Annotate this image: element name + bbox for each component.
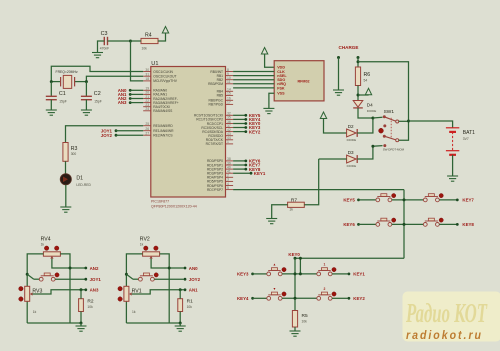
module U2 RFM02 body <box>274 61 324 101</box>
wire CHARGE rail to SW1 top <box>358 62 409 121</box>
svg-text:AN2: AN2 <box>90 266 99 271</box>
svg-text:4: 4 <box>227 182 229 186</box>
button 2 row right <box>317 287 336 300</box>
wire keypad rail to KEY0 <box>295 257 404 259</box>
svg-text:RB4: RB4 <box>217 90 224 94</box>
svg-text:KEY4: KEY4 <box>237 296 249 301</box>
svg-text:RV4: RV4 <box>41 237 51 243</box>
node label KEY0 at U1 <box>233 121 261 126</box>
button &#9660; row left <box>267 287 286 300</box>
svg-text:9: 9 <box>227 72 229 76</box>
wire D3 left to R7 riser <box>319 158 347 160</box>
svg-text:R6: R6 <box>364 72 371 78</box>
wire bottom rail R2 <box>27 322 81 324</box>
wire RV4 right lead and right rail <box>60 254 70 323</box>
node junction button branch <box>125 273 128 276</box>
node label JOY2 <box>184 277 201 282</box>
svg-text:R1: R1 <box>187 299 193 305</box>
node label KEY6 <box>343 222 376 227</box>
svg-text:40: 40 <box>227 165 231 169</box>
wire D2 D4 node to SW1 pin <box>373 116 383 119</box>
wire SW1 pole1 contact to battery rail <box>399 120 409 122</box>
node label KEY8 at U1 <box>233 167 261 172</box>
wire RV2 right lead and right rail <box>160 254 170 323</box>
svg-text:23: 23 <box>145 103 149 107</box>
svg-text:AN3: AN3 <box>90 288 99 293</box>
ground below D1 <box>60 207 71 212</box>
svg-text:KEY2: KEY2 <box>249 129 261 134</box>
svg-text:39: 39 <box>227 161 231 165</box>
node junction R6 D4 arrow <box>357 94 360 97</box>
svg-text:RC2/CCP1: RC2/CCP1 <box>207 122 223 126</box>
svg-text:RA1/AN1: RA1/AN1 <box>153 93 167 97</box>
diode D2 <box>347 124 358 142</box>
svg-text:15: 15 <box>227 92 231 96</box>
svg-text:RB7/PGD: RB7/PGD <box>209 103 224 107</box>
svg-text:RE1/AN6/WR: RE1/AN6/WR <box>153 129 174 133</box>
wire OSC1 to crystal left node <box>51 66 143 81</box>
node label JOY1 <box>101 128 143 133</box>
wire D2 to SW1 common <box>357 118 373 133</box>
svg-text:OSC2/CLKOUT: OSC2/CLKOUT <box>153 75 176 79</box>
button KEY8 row right <box>423 218 443 226</box>
wire button to KEY7 <box>439 199 456 201</box>
wire OSC2 to crystal right node <box>86 76 143 81</box>
svg-text:17: 17 <box>227 101 231 105</box>
ground below R1 <box>175 323 186 331</box>
watermark radiokot panel <box>403 292 500 342</box>
svg-text:nSEL: nSEL <box>277 74 287 78</box>
wire diagonal to button <box>126 274 138 279</box>
node junction R2 top <box>80 288 83 291</box>
svg-text:1: 1 <box>324 263 326 267</box>
svg-text:32: 32 <box>227 112 231 116</box>
wire R7 right riser to D3 <box>304 159 318 205</box>
watermark title <box>405 298 488 328</box>
node label KEY7 <box>456 198 475 203</box>
svg-text:10k: 10k <box>187 305 193 309</box>
wire button to rail row KEY6 <box>392 223 424 225</box>
svg-text:D2: D2 <box>348 124 354 129</box>
wire R7 left to ground <box>272 205 288 219</box>
node label AN1 <box>118 92 143 97</box>
node label JOY2 <box>101 133 143 138</box>
wire RV3 wiper to AN3 <box>33 290 85 294</box>
svg-text:R4: R4 <box>145 32 152 38</box>
svg-text:RA5/AN4/SS: RA5/AN4/SS <box>153 109 173 113</box>
U1 right pin stubs and numbers <box>226 68 234 190</box>
svg-text:KEY8: KEY8 <box>462 222 474 227</box>
wire D3 to SW1 second pole <box>357 146 382 159</box>
wire to power arrow at D4 <box>358 94 369 96</box>
ground below RFM02 VSS <box>263 108 274 113</box>
diode D1 LED-RED <box>60 174 91 187</box>
svg-text:15pF: 15pF <box>94 100 102 104</box>
svg-text:19: 19 <box>145 87 149 91</box>
svg-text:RB6/PGC: RB6/PGC <box>209 99 224 103</box>
svg-text:C1: C1 <box>59 91 66 97</box>
node junction riser top <box>299 257 302 260</box>
svg-text:R5: R5 <box>302 313 308 319</box>
node junction right rail AN0 row <box>168 267 171 270</box>
wire button to KEY2 <box>332 297 348 299</box>
svg-text:26: 26 <box>145 127 149 131</box>
svg-text:RD6/PSP6: RD6/PSP6 <box>207 184 223 188</box>
wire MCLR net vertical <box>131 41 144 81</box>
svg-text:VDD: VDD <box>277 66 285 70</box>
svg-text:470nF: 470nF <box>100 47 109 51</box>
node label KEY4 at U1 <box>233 117 261 122</box>
node label AN0 <box>118 88 143 93</box>
svg-text:1k: 1k <box>132 310 136 314</box>
resistor R3 <box>63 143 78 162</box>
svg-text:RB2: RB2 <box>217 78 224 82</box>
node label KEY0 <box>288 252 300 260</box>
svg-text:KEY5: KEY5 <box>343 198 355 203</box>
node label KEY1 at U1 <box>233 171 266 176</box>
wire CHARGE right to R6 <box>357 58 359 68</box>
node junction bottom rail R1 <box>179 322 182 325</box>
wire button to KEY1 <box>332 273 348 275</box>
svg-text:RD4/PSP4: RD4/PSP4 <box>207 176 223 180</box>
svg-text:RC1/T1OSI/CCP2: RC1/T1OSI/CCP2 <box>196 118 223 122</box>
capacitor C2 <box>81 82 102 110</box>
wire button to KEY8 <box>439 223 456 225</box>
svg-text:RE2/AN7/CS: RE2/AN7/CS <box>153 134 173 138</box>
node label AN3 <box>84 288 99 293</box>
svg-text:RFM02: RFM02 <box>298 80 310 84</box>
node junction right rail AN2 row <box>69 267 72 270</box>
button KEY5 row left <box>376 194 396 202</box>
svg-text:D1: D1 <box>76 176 83 182</box>
button KEY7 row right <box>423 194 443 202</box>
node junction button branch <box>26 273 29 276</box>
node label KEY5 at U1 <box>233 113 261 118</box>
svg-text:RC0/T1OSO/T1CKI: RC0/T1OSO/T1CKI <box>194 114 223 118</box>
svg-text:14: 14 <box>227 88 231 92</box>
svg-text:10: 10 <box>227 76 231 80</box>
svg-text:JOY1: JOY1 <box>90 277 102 282</box>
svg-text:D4: D4 <box>367 102 373 107</box>
node junction bottom rail R2 <box>80 322 83 325</box>
node crystal right <box>85 80 88 83</box>
svg-text:RD5/PSP5: RD5/PSP5 <box>207 180 223 184</box>
ground below R5 <box>290 331 301 336</box>
svg-text:31: 31 <box>145 73 149 77</box>
capacitor C1 <box>46 82 67 110</box>
wire button to JOY1 <box>55 278 84 280</box>
svg-text:KEY2: KEY2 <box>353 296 365 301</box>
node label KEY7 at U1 <box>233 163 261 168</box>
switch SW1 <box>379 109 399 147</box>
node label AN2 <box>118 96 143 101</box>
svg-text:10k: 10k <box>302 319 308 323</box>
resistor R4 <box>141 32 158 50</box>
svg-text:RA0/AN0: RA0/AN0 <box>153 89 167 93</box>
svg-text:KEY3: KEY3 <box>237 272 249 277</box>
svg-text:RD3/PSP3: RD3/PSP3 <box>207 172 223 176</box>
battery BAT1 <box>446 128 475 155</box>
svg-text:R2: R2 <box>87 299 93 305</box>
wire button to rail row KEY5 <box>392 199 424 201</box>
svg-text:▲: ▲ <box>273 263 276 267</box>
U1 left pin stubs and numbers <box>143 68 151 136</box>
SW1 type label <box>383 148 405 152</box>
svg-text:RA4/T0CKI: RA4/T0CKI <box>153 105 170 109</box>
wire RV2 wiper to AN0 <box>151 259 184 268</box>
svg-text:2: 2 <box>227 174 229 178</box>
ground below C2 <box>81 110 92 115</box>
svg-text:25: 25 <box>145 122 149 126</box>
svg-text:15pF: 15pF <box>59 100 67 104</box>
svg-text:22: 22 <box>145 99 149 103</box>
resistor R2 <box>79 299 94 312</box>
node label AN3 <box>118 100 143 105</box>
wire R4 right lead to power <box>158 34 166 42</box>
resistor R1 <box>178 299 193 312</box>
svg-text:54: 54 <box>364 78 368 82</box>
svg-text:KEY1: KEY1 <box>254 171 266 176</box>
svg-text:R3: R3 <box>71 146 78 152</box>
power arrow VDD for RFM02 <box>261 48 267 55</box>
svg-text:RB0/INT: RB0/INT <box>210 70 223 74</box>
svg-text:radiokot.ru: radiokot.ru <box>406 330 483 342</box>
wire R3 to D1 <box>65 161 67 174</box>
potentiometer RV1 <box>118 286 142 314</box>
diode D3 <box>347 150 358 168</box>
wire R6 to D4 <box>357 86 359 101</box>
svg-text:SW1: SW1 <box>384 109 395 115</box>
node junction CHARGE rail <box>357 60 360 63</box>
wire RB2 to SDO <box>233 79 274 81</box>
node label KEY3 <box>237 272 267 277</box>
wire RB0 to CLK <box>233 71 274 73</box>
ground below C3 <box>92 53 103 58</box>
svg-text:MCLR/Vpp/THV: MCLR/Vpp/THV <box>153 79 177 83</box>
svg-text:21: 21 <box>145 95 149 99</box>
node crystal left <box>50 80 53 83</box>
svg-text:nIRQ: nIRQ <box>277 82 286 86</box>
node junction D3 SW1 <box>371 145 374 148</box>
wire RD7 to keypad rail <box>233 189 404 191</box>
button KEY6 row left <box>376 218 396 226</box>
wire power arrow to D2 <box>324 119 347 134</box>
svg-text:R7: R7 <box>291 198 297 204</box>
ground below R7 <box>266 219 277 224</box>
node label KEY1 <box>348 272 366 277</box>
ground below C1 <box>46 110 57 115</box>
svg-text:RD0/PSP0: RD0/PSP0 <box>207 159 223 163</box>
svg-text:KEY6: KEY6 <box>343 222 355 227</box>
crystal X1 <box>51 75 86 88</box>
node CHARGE right terminal <box>357 56 360 59</box>
svg-text:AN3: AN3 <box>118 100 127 105</box>
potentiometer RV2 <box>140 237 160 259</box>
wire CHARGE left to ground <box>338 58 340 91</box>
svg-text:1: 1 <box>227 140 229 144</box>
node label AN2 <box>84 266 99 271</box>
wire RV4 left lead and left rail <box>27 254 43 323</box>
watermark url radiokot.ru <box>406 330 483 342</box>
wire keypad rail vertical <box>403 190 405 259</box>
svg-text:KEY0: KEY0 <box>288 252 300 257</box>
node junction R1 top <box>179 288 182 291</box>
svg-text:1k: 1k <box>41 242 45 246</box>
wire diagonal to button <box>27 274 39 279</box>
svg-text:RE0/AN5/RD: RE0/AN5/RD <box>153 124 173 128</box>
svg-text:27: 27 <box>145 132 149 136</box>
capacitor C3 <box>100 31 109 51</box>
svg-text:38: 38 <box>227 157 231 161</box>
svg-text:RA3/AN3/VREF+: RA3/AN3/VREF+ <box>153 101 178 105</box>
svg-text:5: 5 <box>227 186 229 190</box>
node label CHARGE <box>339 45 359 50</box>
wire D4 to D2 node <box>358 108 373 118</box>
svg-text:FREQ=20MHz: FREQ=20MHz <box>56 70 78 74</box>
svg-text:3: 3 <box>227 178 229 182</box>
svg-text:RB5: RB5 <box>217 94 224 98</box>
resistor R5 <box>292 311 308 328</box>
svg-text:D3: D3 <box>348 150 354 155</box>
U1 reference label <box>151 61 158 67</box>
node junction rail KEY6 <box>403 223 406 226</box>
button joystick fire <box>39 273 59 281</box>
svg-text:RC6/TX/CK: RC6/TX/CK <box>206 138 224 142</box>
svg-text:RC4/SDI/SDA: RC4/SDI/SDA <box>202 130 224 134</box>
node junction second riser row A <box>299 272 302 275</box>
potentiometer RV4 <box>41 237 61 259</box>
svg-text:DIODE: DIODE <box>347 164 357 168</box>
crystal X1 FREQ label <box>56 70 78 74</box>
node label AN1 <box>184 288 199 293</box>
svg-text:▼: ▼ <box>273 287 276 291</box>
wire KEY0 down to rows <box>294 258 296 310</box>
svg-text:U1: U1 <box>151 61 158 67</box>
svg-text:RD2/PSP2: RD2/PSP2 <box>207 167 223 171</box>
button &#9650; row left <box>267 263 286 276</box>
svg-text:43: 43 <box>227 132 231 136</box>
svg-text:11: 11 <box>227 80 231 84</box>
node junction rail KEY5 <box>403 198 406 201</box>
wire R4 left lead <box>131 40 142 42</box>
node label KEY8 <box>456 222 475 227</box>
svg-text:FSK: FSK <box>277 86 285 90</box>
ground below BAT1 <box>447 176 458 181</box>
button 1 row right <box>317 263 336 276</box>
wire R5 to ground <box>294 327 296 331</box>
svg-text:1k: 1k <box>289 208 293 212</box>
svg-text:AN1: AN1 <box>189 288 198 293</box>
wire VSS to ground <box>269 93 274 108</box>
ground below CHARGE <box>333 90 344 95</box>
op-amp U1 microcontroller PIC16F877 body <box>151 67 226 198</box>
svg-text:RC7/RX/DT: RC7/RX/DT <box>206 142 223 146</box>
node label KEY6 at U1 <box>233 159 261 164</box>
node junction battery rail <box>407 120 410 123</box>
svg-text:18: 18 <box>145 77 149 81</box>
wire RB4 to FSK <box>233 87 274 89</box>
svg-text:16: 16 <box>227 97 231 101</box>
wire BAT1 to ground <box>452 155 454 176</box>
node label KEY2 <box>348 296 366 301</box>
svg-text:RV2: RV2 <box>140 237 150 243</box>
svg-text:RB3/PGM: RB3/PGM <box>208 82 223 86</box>
U1 footprint label <box>151 204 197 208</box>
wire rail to BAT1 <box>409 121 453 128</box>
wire VDD to module <box>265 54 275 67</box>
svg-text:DIODE: DIODE <box>347 138 357 142</box>
svg-text:3V7: 3V7 <box>463 137 469 141</box>
wire between buttons KEY3 <box>282 273 317 275</box>
svg-text:VSS: VSS <box>277 92 285 96</box>
svg-text:41: 41 <box>227 170 231 174</box>
svg-text:OSC1/CLKIN: OSC1/CLKIN <box>153 70 173 74</box>
svg-text:RA2/AN2/VREF-: RA2/AN2/VREF- <box>153 97 178 101</box>
svg-text:CLK: CLK <box>277 70 285 74</box>
svg-text:42: 42 <box>227 128 231 132</box>
wire RB3 to nIRQ <box>233 83 274 85</box>
svg-text:RC3/SCK/SCL: RC3/SCK/SCL <box>201 126 223 130</box>
svg-text:300: 300 <box>71 152 77 156</box>
svg-text:20: 20 <box>145 91 149 95</box>
wire SW1 pole2 contact to rail <box>399 121 409 140</box>
svg-text:PIC16F877: PIC16F877 <box>151 199 169 203</box>
node label KEY3 at U1 <box>233 125 261 130</box>
node label KEY5 <box>343 198 376 203</box>
svg-text:RB1: RB1 <box>217 74 224 78</box>
wire between buttons KEY4 <box>282 297 317 299</box>
wire button to JOY2 <box>154 278 183 280</box>
svg-text:DIODE: DIODE <box>367 109 377 113</box>
svg-text:KEY7: KEY7 <box>462 198 474 203</box>
power arrow near D4 <box>365 88 371 95</box>
wire RV1 wiper to AN1 <box>132 290 184 294</box>
svg-text:44: 44 <box>227 136 231 140</box>
svg-text:C2: C2 <box>94 91 101 97</box>
svg-text:37: 37 <box>227 124 231 128</box>
button joystick fire <box>139 273 159 281</box>
svg-text:10k: 10k <box>87 305 93 309</box>
wire R1 leads <box>179 290 181 323</box>
svg-text:2: 2 <box>324 287 326 291</box>
ground below R2 <box>76 323 87 331</box>
svg-text:RD1/PSP1: RD1/PSP1 <box>207 163 223 167</box>
svg-text:CHARGE: CHARGE <box>339 45 359 50</box>
node label KEY2 at U1 <box>233 129 261 134</box>
wire RV4 wiper to AN2 <box>52 259 85 268</box>
svg-text:RD7/PSP7: RD7/PSP7 <box>207 188 223 192</box>
wire C3 right lead <box>108 40 131 42</box>
node label AN0 <box>184 266 199 271</box>
wire C3 left lead to ground <box>98 41 105 53</box>
svg-text:LED-RED: LED-RED <box>76 183 91 187</box>
svg-text:30: 30 <box>145 68 149 72</box>
svg-text:1k: 1k <box>33 310 37 314</box>
potentiometer RV3 <box>19 286 43 314</box>
wire RV2 left lead and left rail <box>126 254 142 323</box>
U1 value label PIC16F877 <box>151 199 169 203</box>
svg-text:24: 24 <box>145 107 149 111</box>
svg-text:BAT1: BAT1 <box>463 130 475 136</box>
svg-text:Радио КОТ: Радио КОТ <box>405 298 488 328</box>
svg-text:QFP80P1200X1200X120-44: QFP80P1200X1200X120-44 <box>151 204 197 208</box>
power arrow above R4 <box>162 27 168 34</box>
resistor R6 <box>355 67 370 86</box>
svg-text:8: 8 <box>227 68 229 72</box>
svg-text:JOY2: JOY2 <box>101 133 113 138</box>
svg-text:36: 36 <box>227 120 231 124</box>
svg-text:KEY1: KEY1 <box>353 272 365 277</box>
